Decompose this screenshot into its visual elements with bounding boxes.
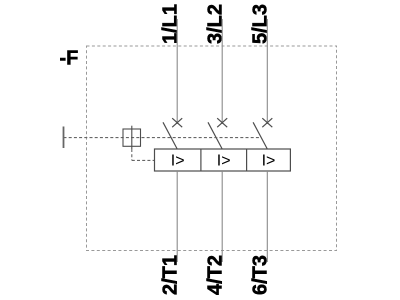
contact blade pole 1 <box>163 122 177 149</box>
svg-text:4/T2: 4/T2 <box>205 255 227 295</box>
trip mechanism square <box>123 129 141 146</box>
trip mechanism plunger line <box>131 126 133 149</box>
trip linkage (dashed) square to release box: vertical <box>131 149 133 160</box>
svg-text:I>: I> <box>262 153 276 170</box>
wire: pole 3 top conductor (5/L3) <box>266 19 268 124</box>
svg-text:-F: -F <box>60 47 79 69</box>
release box divider 1 <box>200 149 202 171</box>
svg-text:1/L1: 1/L1 <box>160 4 182 44</box>
wire: pole 2 bottom conductor (4/T2) <box>221 171 223 262</box>
svg-text:I>: I> <box>217 153 231 170</box>
wire: pole 2 top conductor (3/L2) <box>221 19 223 124</box>
wire: pole 3 bottom conductor (6/T3) <box>266 171 268 262</box>
overcurrent release box <box>155 149 291 171</box>
trip linkage (dashed) square to release box: horizontal <box>132 159 155 161</box>
breaker -F enclosure outline (dashed) <box>87 46 337 251</box>
svg-text:I>: I> <box>171 153 185 170</box>
svg-text:3/L2: 3/L2 <box>205 4 227 44</box>
release box divider 2 <box>246 149 248 171</box>
contact blade pole 3 <box>253 122 267 149</box>
circuit-breaker contact X pole 1 <box>172 118 182 127</box>
svg-text:6/T3: 6/T3 <box>250 255 272 295</box>
circuit-breaker contact X pole 3 <box>262 118 272 127</box>
mechanical linkage (dashed) handle to blades <box>64 137 262 139</box>
wire: pole 1 top conductor (1/L1) <box>176 19 178 124</box>
svg-text:5/L3: 5/L3 <box>250 4 272 44</box>
circuit-breaker contact X pole 2 <box>217 118 227 127</box>
contact blade pole 2 <box>208 122 222 149</box>
operating handle bar <box>63 127 65 149</box>
wire: pole 1 bottom conductor (2/T1) <box>176 171 178 262</box>
svg-text:2/T1: 2/T1 <box>160 255 182 295</box>
